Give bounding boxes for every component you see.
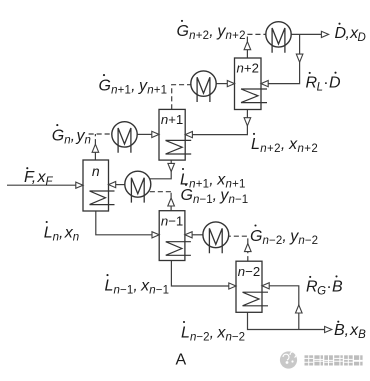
mixer M5 (vapor G_n-2 circle) — [203, 222, 229, 253]
svg-text:Ln−1, xn−1: Ln−1, xn−1 — [105, 277, 170, 296]
svg-text:Ln−2, xn−2: Ln−2, xn−2 — [181, 324, 245, 343]
wire vapor G_n+2 outlet (stage n+2 top to corner) — [246, 49, 248, 58]
svg-text:n+2: n+2 — [237, 61, 259, 76]
stage n-2 — [236, 261, 268, 312]
svg-text:n−2: n−2 — [238, 264, 260, 279]
wire vapor G_n: stage n top, arrow, dashed corner to mixer M3 — [94, 152, 96, 161]
svg-text:F, xF: F, xF — [24, 169, 54, 188]
svg-text:n+1: n+1 — [161, 112, 183, 127]
wire M3 to stage n+1 left inlet — [137, 133, 152, 135]
watermark text blocks — [305, 355, 363, 365]
arrow G_n up out of stage n — [92, 144, 99, 152]
svg-text:D, xD: D, xD — [335, 25, 366, 44]
wire vapor G_n+1: stage n+1 top dashed up and right to mixer M2 — [172, 85, 191, 110]
label G_n-2 y_n-2 — [250, 224, 318, 246]
arrow bottoms B — [325, 326, 332, 332]
arrow feed F into n left — [76, 182, 83, 188]
arrow L_n into n-1 left — [152, 232, 159, 238]
label L_n+1 x_n+1 — [180, 168, 246, 190]
arrow L_n+1 down below n+1 — [168, 163, 175, 171]
wire liquid L_n-1: stage n-1 bottom down, corner right into n-2 left inlet — [171, 261, 229, 287]
label G_n y_n — [52, 124, 91, 146]
svg-text:Gn+2, yn+2: Gn+2, yn+2 — [177, 23, 246, 42]
label G_n-1 y_n-1 — [181, 184, 249, 206]
svg-text:A: A — [176, 352, 187, 369]
arrow reflux R_L down — [296, 54, 303, 62]
label G_n+2 y_n+2 — [177, 20, 246, 42]
wire M4 to stage n right inlet — [116, 184, 125, 186]
wire distillate line M1 to D arrow — [291, 33, 321, 35]
svg-text:RL · D: RL · D — [306, 74, 341, 93]
stage n+1 — [159, 109, 191, 160]
svg-text:Ln, xn: Ln, xn — [44, 224, 79, 243]
arrow M5 into n-1 right — [185, 232, 192, 238]
label L_n-2 x_n-2 — [181, 321, 245, 343]
svg-text:Gn, yn: Gn, yn — [52, 127, 91, 146]
arrow reflux into n+2 right — [261, 81, 268, 87]
wire boilup R_G riser and return into n-2 — [269, 286, 298, 330]
wire vapor G_n-1: stage n-1 top, arrow, dashed corner left to mixer M4 — [170, 205, 172, 211]
label L_n-1 x_n-1 — [105, 274, 170, 296]
wire liquid L_n+2: stage n+2 bottom down, corner left into n+1 right inlet — [192, 110, 247, 135]
label R_G x B (boilup) — [306, 275, 343, 297]
stage n-1 — [159, 211, 191, 261]
wire bottoms L_n-2 to B arrow — [248, 312, 325, 329]
wire reflux R_L riser and return into n+2 — [268, 34, 299, 83]
arrow G_n+2 up out of stage n+2 — [244, 42, 251, 50]
label F x_F (feed) — [24, 167, 54, 188]
svg-text:Gn−2, yn−2: Gn−2, yn−2 — [250, 228, 318, 247]
svg-text:n−1: n−1 — [161, 213, 183, 228]
mixer M4 (vapor G_n-1 / liquid L_n+1 circle) — [125, 171, 151, 202]
arrow L_n+2 into n+1 right — [185, 132, 192, 138]
svg-text:Ln+2, xn+2: Ln+2, xn+2 — [251, 136, 318, 155]
mixer M2 (vapor G_n+1 circle) — [191, 71, 216, 102]
svg-text:Gn+1, yn+1: Gn+1, yn+1 — [99, 77, 168, 96]
arrow distillate D — [321, 31, 328, 37]
arrow L_n+2 down below n+2 — [244, 118, 251, 126]
arrow G_n-2 up out of n-2 — [245, 244, 252, 252]
svg-text:B, xB: B, xB — [334, 322, 366, 341]
mixer M3 (vapor G_n circle) — [112, 122, 137, 153]
arrow boilup into n-2 right — [262, 283, 269, 289]
mixer M1 (overhead condenser circle) — [266, 22, 291, 53]
wire M5 to stage n-1 right inlet — [192, 234, 203, 236]
label R_L x D (reflux) — [306, 72, 341, 94]
wire dashed G_n+2 horizontal to mixer M1 — [247, 33, 265, 35]
arrow M2 into n+2 left — [227, 81, 234, 87]
arrow boilup R_G up — [296, 305, 303, 313]
label B x_B (bottoms) — [334, 321, 366, 341]
stage n (feed stage) — [83, 160, 115, 211]
stage n+2 — [235, 58, 268, 110]
svg-text:n: n — [92, 163, 100, 179]
wire feed F into stage n — [7, 184, 76, 186]
wire liquid L_n: stage n bottom down, corner right into n-1 left inlet — [96, 211, 152, 235]
wire M2 to stage n+2 left inlet — [216, 83, 227, 85]
arrow M3 into n+1 left — [152, 131, 159, 137]
arrow L_n-1 into n-2 left — [229, 283, 236, 289]
label G_n+1 y_n+1 — [99, 74, 168, 96]
wire liquid L_n+1: stage n+1 bottom down, corner left into mixer M4 — [150, 160, 172, 179]
label L_n x_n — [44, 221, 79, 243]
wire vapor G_n-2: stage n-2 top dashed, arrow, corner left to mixer M5 — [229, 236, 248, 261]
arrow M4 into n right — [109, 182, 116, 188]
label D x_D (distillate) — [335, 23, 366, 45]
watermark logo circle — [280, 351, 297, 368]
svg-text:RG · B: RG · B — [306, 278, 343, 297]
arrow G_n-1 up out of n-1 — [168, 198, 175, 206]
label L_n+2 x_n+2 — [251, 133, 318, 155]
